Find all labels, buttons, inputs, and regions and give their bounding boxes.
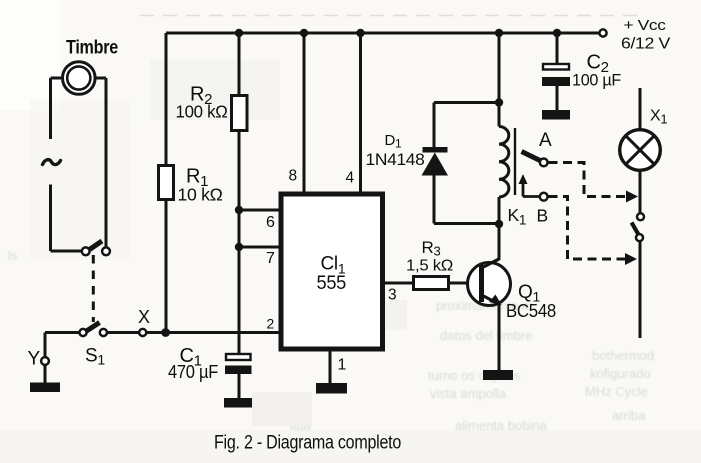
- svg-text:1,5 kΩ: 1,5 kΩ: [406, 258, 453, 275]
- svg-text:10 kΩ: 10 kΩ: [178, 185, 223, 205]
- svg-text:100 µF: 100 µF: [572, 71, 621, 90]
- svg-text:3: 3: [388, 287, 396, 304]
- svg-text:A: A: [539, 130, 552, 151]
- svg-text:100 kΩ: 100 kΩ: [176, 102, 228, 122]
- svg-text:bothermod: bothermod: [592, 348, 654, 363]
- svg-text:+ Vcc: + Vcc: [624, 17, 667, 34]
- svg-text:6/12 V: 6/12 V: [621, 36, 671, 53]
- svg-text:4: 4: [346, 170, 355, 187]
- svg-text:6: 6: [266, 214, 275, 231]
- svg-text:alimenta bobina: alimenta bobina: [455, 418, 548, 433]
- svg-text:Fig. 2 - Diagrama completo: Fig. 2 - Diagrama completo: [214, 433, 401, 454]
- svg-text:1N4148: 1N4148: [366, 151, 425, 169]
- svg-text:555: 555: [317, 273, 347, 294]
- svg-text:2: 2: [267, 316, 275, 332]
- svg-text:vista ampolla: vista ampolla: [430, 386, 507, 401]
- svg-text:470 µF: 470 µF: [168, 362, 218, 382]
- svg-text:ls: ls: [8, 248, 18, 263]
- svg-text:kofigurado: kofigurado: [590, 366, 651, 381]
- svg-text:datos del timbre: datos del timbre: [440, 328, 533, 343]
- svg-text:Timbre: Timbre: [66, 38, 118, 59]
- svg-text:1: 1: [338, 357, 347, 374]
- svg-text:B: B: [537, 206, 548, 226]
- svg-text:7: 7: [266, 250, 275, 267]
- svg-text:arriba: arriba: [612, 408, 646, 423]
- svg-text:MHz Cycle: MHz Cycle: [585, 384, 648, 399]
- svg-text:8: 8: [289, 168, 297, 185]
- svg-text:BC548: BC548: [506, 301, 556, 321]
- svg-text:X: X: [138, 307, 150, 327]
- svg-text:Y: Y: [28, 349, 41, 370]
